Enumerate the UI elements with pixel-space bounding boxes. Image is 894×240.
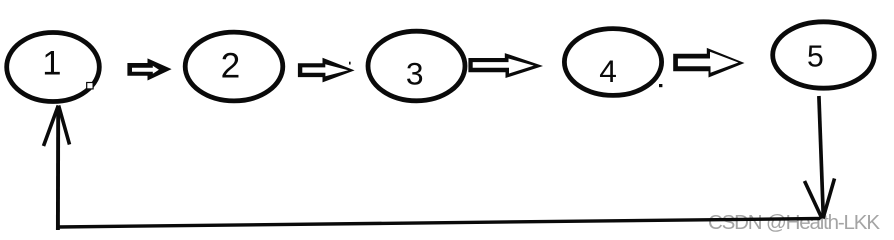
block arrow 4→5	[673, 48, 744, 78]
block arrow 1→2	[127, 58, 171, 80]
block arrow 2→3	[298, 58, 355, 83]
wire: bottom horizontal line	[58, 219, 821, 228]
ellipse node 4	[564, 29, 661, 96]
selection handle square	[87, 83, 93, 89]
block arrow 3→4	[468, 53, 543, 78]
ellipse node 1	[7, 33, 100, 102]
ellipse node 5	[773, 22, 875, 88]
wire: left vertical line up to node 1	[56, 106, 60, 230]
arrowhead up	[44, 106, 70, 147]
ellipse node 3	[368, 31, 465, 101]
stray tick mark	[349, 62, 351, 65]
wire: down line from node 5	[819, 96, 823, 217]
arrowhead down	[805, 179, 835, 219]
svg-text:4: 4	[599, 53, 617, 89]
svg-text:2: 2	[221, 47, 241, 86]
svg-text:3: 3	[406, 56, 424, 92]
stray dot	[659, 84, 662, 87]
svg-text:1: 1	[42, 45, 61, 83]
ellipse node 2	[185, 32, 283, 101]
svg-text:CSDN @Health-LKK: CSDN @Health-LKK	[708, 211, 880, 234]
svg-text:5: 5	[807, 41, 824, 74]
